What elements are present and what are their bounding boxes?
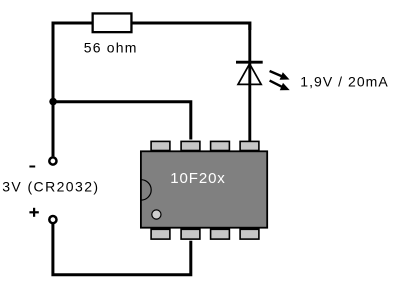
svg-text:3V (CR2032): 3V (CR2032) bbox=[2, 178, 98, 194]
svg-text:10F20x: 10F20x bbox=[170, 170, 225, 187]
svg-text:1,9V / 20mA: 1,9V / 20mA bbox=[300, 73, 388, 89]
